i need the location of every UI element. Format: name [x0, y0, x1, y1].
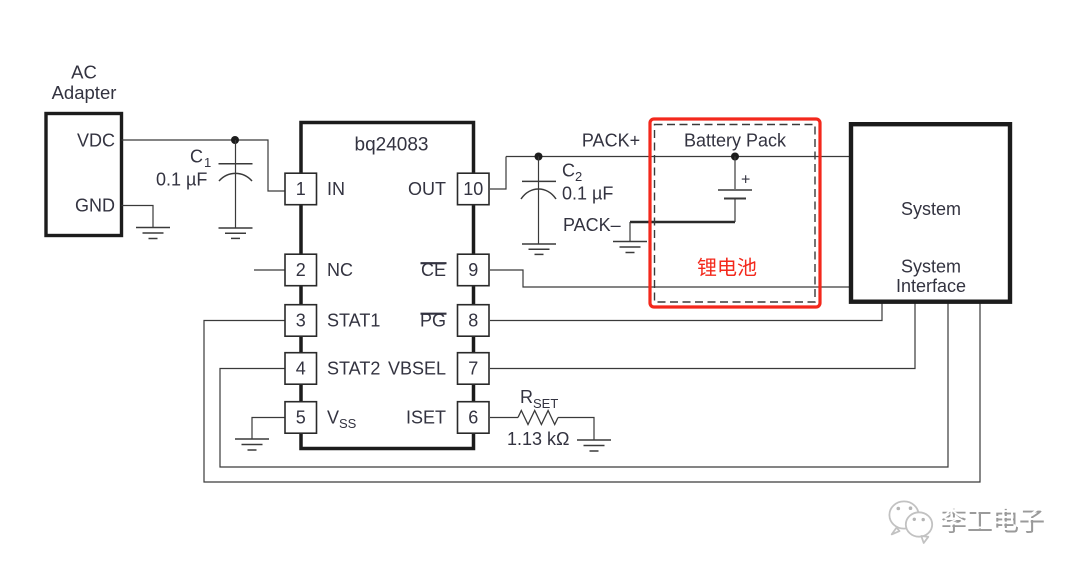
label VSS: [327, 408, 357, 432]
node C2 junction: [535, 153, 543, 161]
svg-text:Battery Pack: Battery Pack: [684, 131, 787, 151]
svg-text:C: C: [190, 147, 203, 167]
ground C1: [219, 228, 253, 238]
svg-text:AC: AC: [71, 62, 97, 83]
pin 4: [285, 353, 317, 385]
watermark wechat icon: [889, 501, 932, 543]
AC adapter box: [46, 62, 122, 236]
wire STAT2 pin4 to system: [220, 302, 948, 467]
svg-text:C: C: [562, 161, 575, 181]
battery pack red box: [650, 119, 820, 307]
svg-text:2: 2: [575, 169, 582, 184]
resistor RSET: [507, 387, 570, 449]
op IC U1 bq24083 body: [301, 123, 474, 449]
svg-text:V: V: [327, 408, 339, 428]
wire PACK+ rail: [506, 156, 849, 158]
svg-text:PACK–: PACK–: [563, 215, 621, 235]
wire VDC to pin 1: [122, 140, 286, 191]
capacitor C1: [156, 140, 253, 228]
capacitor C2: [521, 157, 613, 245]
svg-text:SET: SET: [533, 396, 558, 411]
ground C2: [522, 244, 556, 254]
svg-text:GND: GND: [75, 196, 115, 216]
svg-text:5: 5: [296, 408, 306, 428]
pin 1: [285, 173, 317, 205]
svg-text:NC: NC: [327, 260, 353, 280]
pin 6: [458, 402, 490, 434]
wire NC stub: [254, 269, 285, 271]
svg-text:VDC: VDC: [77, 131, 115, 151]
svg-text:STAT2: STAT2: [327, 359, 380, 379]
wire PG pin8 to system: [490, 302, 882, 321]
ground PACK-: [613, 242, 647, 253]
watermark text: [939, 505, 1046, 538]
wire PACK- to ground: [629, 222, 631, 242]
svg-text:2: 2: [296, 260, 306, 280]
label CE with overline: [421, 260, 447, 280]
svg-text:4: 4: [296, 359, 306, 379]
label PG with overline: [420, 311, 447, 331]
svg-text:VBSEL: VBSEL: [388, 359, 446, 379]
wire VSS pin5 to ground: [252, 418, 285, 440]
pin 3: [285, 305, 317, 337]
svg-text:9: 9: [468, 260, 478, 280]
svg-text:OUT: OUT: [408, 179, 446, 199]
node battery junction: [731, 153, 739, 161]
wire CE pin9 to system: [490, 270, 849, 287]
battery pack dashed box: [655, 125, 816, 303]
svg-text:STAT1: STAT1: [327, 311, 380, 331]
svg-text:1.13 kΩ: 1.13 kΩ: [507, 429, 570, 449]
svg-text:PACK+: PACK+: [582, 131, 640, 151]
svg-text:锂电池: 锂电池: [697, 257, 757, 280]
pin 8: [458, 305, 490, 337]
wire resistor to ground: [558, 418, 594, 441]
svg-text:8: 8: [468, 311, 478, 331]
battery BT1: [718, 157, 752, 223]
wire PACK- thick: [630, 221, 735, 223]
wire GND of adapter: [122, 206, 154, 228]
wire OUT pin10 to PACK+: [490, 157, 506, 190]
pin 2: [285, 254, 317, 286]
svg-text:1: 1: [296, 179, 306, 199]
wire STAT1 pin3 to system: [204, 302, 980, 482]
pin 7: [458, 353, 490, 385]
svg-text:Adapter: Adapter: [52, 82, 117, 103]
ground VSS: [235, 439, 269, 450]
pin 5: [285, 402, 317, 434]
svg-text:SS: SS: [339, 416, 357, 431]
svg-text:+: +: [741, 172, 750, 189]
ground adapter: [136, 228, 170, 239]
pin 9: [458, 254, 490, 286]
svg-text:ISET: ISET: [406, 408, 446, 428]
svg-text:System: System: [901, 257, 961, 277]
svg-text:10: 10: [463, 179, 483, 199]
system box: [851, 124, 1010, 302]
svg-text:3: 3: [296, 311, 306, 331]
svg-text:李工电子: 李工电子: [939, 505, 1043, 535]
svg-text:IN: IN: [327, 179, 345, 199]
svg-text:0.1 µF: 0.1 µF: [156, 170, 207, 190]
svg-text:6: 6: [468, 408, 478, 428]
wire VBSEL pin7 to system: [490, 302, 915, 369]
node VDC junction: [231, 136, 239, 144]
svg-text:Interface: Interface: [896, 276, 966, 296]
wire ISET pin6 to resistor: [490, 417, 518, 419]
svg-text:1: 1: [204, 155, 211, 170]
svg-text:bq24083: bq24083: [355, 135, 429, 156]
svg-text:R: R: [520, 387, 533, 407]
ground RSET: [577, 440, 611, 451]
svg-text:0.1 µF: 0.1 µF: [562, 184, 613, 204]
pin 10: [458, 173, 490, 205]
svg-text:7: 7: [468, 359, 478, 379]
svg-text:System: System: [901, 199, 961, 219]
